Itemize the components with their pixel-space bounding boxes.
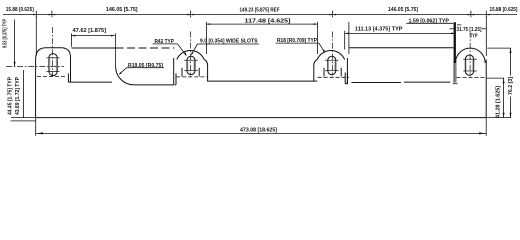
tab T2 hidden line	[176, 76, 207, 78]
dimension 47.62 line	[71, 35, 114, 37]
part outline: right edge	[485, 60, 487, 118]
mid edge left of R19 bend	[71, 81, 113, 83]
tab T2 left leg	[173, 58, 175, 85]
mid edge bend-T4	[404, 81, 450, 83]
svg-text:76.2 [3]: 76.2 [3]	[508, 77, 514, 95]
svg-text:44.45 [1.75] TYP: 44.45 [1.75] TYP	[8, 77, 14, 115]
tab T2 centerline	[190, 32, 192, 77]
tab T3 inner left	[323, 68, 325, 77]
bottom dimension 473.08 line	[36, 132, 487, 134]
tab T3 centerline	[332, 32, 334, 77]
bottom right extension	[486, 117, 511, 119]
svg-text:31.75 [1.25]: 31.75 [1.25]	[457, 27, 482, 33]
tab T1 hidden line	[37, 76, 67, 78]
tab T1 slot	[49, 54, 57, 76]
tab T4 foot	[453, 83, 458, 85]
arrowhead R19.05 leader	[119, 72, 122, 75]
tab T4 slot tick top	[463, 58, 477, 60]
chain extension left edge	[35, 16, 37, 56]
tab T1 U-notch	[68, 74, 70, 83]
svg-text:TYP: TYP	[470, 33, 478, 39]
chain tick T1 center	[51, 11, 53, 18]
svg-text:15.88 [0.625]: 15.88 [0.625]	[490, 7, 518, 13]
extension 41.28 horizontal	[457, 77, 487, 79]
svg-text:473.08 [18.625]: 473.08 [18.625]	[240, 127, 277, 133]
extension line 117.48 right	[317, 26, 319, 54]
left vertical dimension line 1	[14, 20, 16, 67]
svg-text:15.88 [0.625]: 15.88 [0.625]	[6, 7, 34, 13]
bottom dimension 473.08 extension right	[485, 118, 487, 136]
dimension 111.13 line	[345, 32, 456, 34]
chain tick T4 center	[470, 11, 472, 18]
tab T2 slot shade	[193, 61, 195, 70]
svg-text:146.05 [5.75]: 146.05 [5.75]	[106, 7, 138, 13]
extension line T4 left side up	[450, 28, 454, 30]
tab T2 slot	[187, 56, 195, 74]
tab T1 dome	[36, 48, 71, 60]
part outline: left edge	[35, 60, 37, 118]
tab T4 dome	[455, 48, 485, 63]
svg-text:149.23 [5.875] REF: 149.23 [5.875] REF	[240, 8, 281, 14]
arrowhead R18 leader	[323, 49, 325, 52]
arrowhead 9.0 leader	[191, 52, 193, 55]
tab T1 slot shade	[55, 59, 57, 71]
tab T2 inner right	[198, 68, 200, 77]
tab T3 slot	[328, 56, 336, 74]
upper edge solid T3-T4	[349, 47, 453, 49]
tab T3 dome	[317, 50, 344, 59]
tab T4 slot tick bottom	[463, 70, 477, 72]
tab T3 left leg	[314, 60, 317, 82]
tab T1 centerline horizontal	[6, 66, 64, 68]
svg-text:111.13 [4.375] TYP: 111.13 [4.375] TYP	[355, 26, 403, 32]
left margin: bottom edge extension	[11, 117, 36, 119]
extension line 149.23 right / T3 side	[348, 22, 350, 54]
mid edge T3-bend	[351, 82, 401, 84]
chain tick T3 center	[332, 11, 334, 18]
dimension 117.48 line	[206, 23, 317, 25]
arrow 76.2 bottom	[510, 113, 512, 118]
tab T4 slot shade	[472, 60, 474, 70]
svg-text:41.28 [1.625]: 41.28 [1.625]	[496, 86, 502, 118]
tab T3 slot tick top	[325, 59, 339, 61]
arrow 473.08 right	[479, 132, 486, 134]
right top extension line	[487, 47, 511, 49]
bottom dimension 473.08 extension left	[35, 118, 37, 136]
tab T2 right leg	[204, 60, 207, 82]
tab T3 right leg	[346, 58, 348, 84]
upper edge solid T1-T2	[72, 47, 116, 49]
left vertical dimension line 2	[23, 70, 25, 118]
tab T2 slot tick top	[184, 59, 198, 61]
svg-text:117.48 [4.625]: 117.48 [4.625]	[245, 18, 291, 24]
tab T4 centerline	[469, 32, 471, 77]
upper edge dashed T1-T2	[116, 47, 175, 49]
tab T3 hidden line	[318, 76, 349, 78]
arrowhead R42 leader	[184, 52, 186, 55]
chain tick T2 center	[190, 11, 192, 18]
svg-text:9.53 [0.375] TYP: 9.53 [0.375] TYP	[3, 19, 9, 48]
extension line right edge up	[485, 16, 487, 56]
dimension 41.28 vertical line	[503, 78, 505, 117]
mid top edge T2-T3	[207, 80, 317, 82]
top chain dimension line	[3, 14, 517, 16]
dim arrows 47.62	[71, 35, 75, 37]
tab T4 slot	[465, 55, 473, 75]
extension line 117.48 left	[205, 26, 207, 54]
tab T3 right U-notch	[345, 73, 347, 84]
chain tick left edge	[35, 11, 37, 18]
tab T4 left side double line	[453, 60, 455, 83]
tab T3 inner right	[340, 68, 342, 77]
tab T2 inner left	[181, 68, 183, 77]
tab T1 right side	[70, 57, 72, 81]
dim arrows 117.48	[206, 23, 210, 25]
svg-text:146.05 [5.75]: 146.05 [5.75]	[388, 7, 418, 13]
tab T1 slot tick top	[46, 57, 59, 59]
mid edge right of R19 bend	[134, 84, 174, 86]
chain tick right edge	[485, 11, 487, 18]
tab T3 slot shade	[334, 61, 336, 70]
chain arrows	[33, 14, 36, 16]
arrow 76.2 top	[510, 48, 512, 53]
tab T1 centerline vertical	[52, 27, 54, 77]
tab T3 slot tick bottom	[325, 70, 339, 72]
tab T2 slot tick bottom	[184, 70, 198, 72]
svg-text:47.62 [1.875]: 47.62 [1.875]	[73, 28, 107, 34]
R19.05 bend arc	[116, 67, 134, 85]
dimension 76.2 vertical line upper	[510, 48, 512, 75]
dimension 76.2 vertical line lower	[510, 97, 512, 118]
part outline: bottom edge	[36, 117, 487, 119]
tab T1 slot tick bottom	[46, 70, 59, 72]
arrow 41.28 bottom	[503, 113, 505, 118]
arrow 41.28 top	[503, 78, 505, 83]
tab T2 dome	[177, 50, 204, 59]
arrow 473.08 left	[36, 132, 43, 134]
dim arrows 111.13	[345, 33, 349, 35]
svg-text:43.69 [1.72] TYP: 43.69 [1.72] TYP	[15, 77, 21, 115]
